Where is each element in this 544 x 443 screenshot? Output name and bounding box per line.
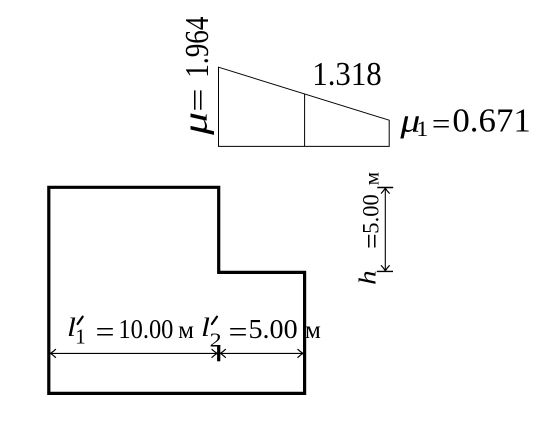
horizontal dimension line l1 segment bbox=[50, 352, 217, 354]
prime mark of l'2 bbox=[212, 317, 217, 324]
load-coefficient trapezoid outline bbox=[219, 67, 390, 146]
arrowhead bottom pointing down bbox=[381, 265, 390, 271]
svg-text:μ1=0.671: μ1=0.671 bbox=[399, 102, 531, 141]
center dimension tick bar bbox=[217, 345, 220, 361]
bottom extension tick of vertical dimension bbox=[377, 270, 393, 272]
prime mark of l'1 bbox=[78, 317, 83, 324]
L-shaped building plan outline bbox=[49, 187, 305, 393]
arrowhead top pointing up bbox=[381, 188, 390, 194]
svg-text:1.318: 1.318 bbox=[312, 56, 381, 93]
arrowhead right of center bar pointing left bbox=[220, 349, 226, 358]
arrowhead at center bar pointing right bbox=[212, 349, 218, 358]
arrowhead right end pointing right bbox=[298, 349, 304, 358]
top extension tick of vertical dimension bbox=[377, 187, 393, 189]
vertical dimension line h bbox=[384, 188, 386, 271]
trapezoid divider line bbox=[304, 94, 306, 146]
svg-text:μ=1.964: μ=1.964 bbox=[176, 16, 217, 136]
arrowhead left end pointing left bbox=[50, 349, 56, 358]
horizontal dimension line l2 segment bbox=[220, 352, 303, 354]
label mu = 1.964 (rotated) bbox=[176, 16, 217, 136]
svg-text:l1=10.00м: l1=10.00м bbox=[67, 312, 194, 349]
label h = 5.00 m (rotated) bbox=[354, 172, 389, 285]
